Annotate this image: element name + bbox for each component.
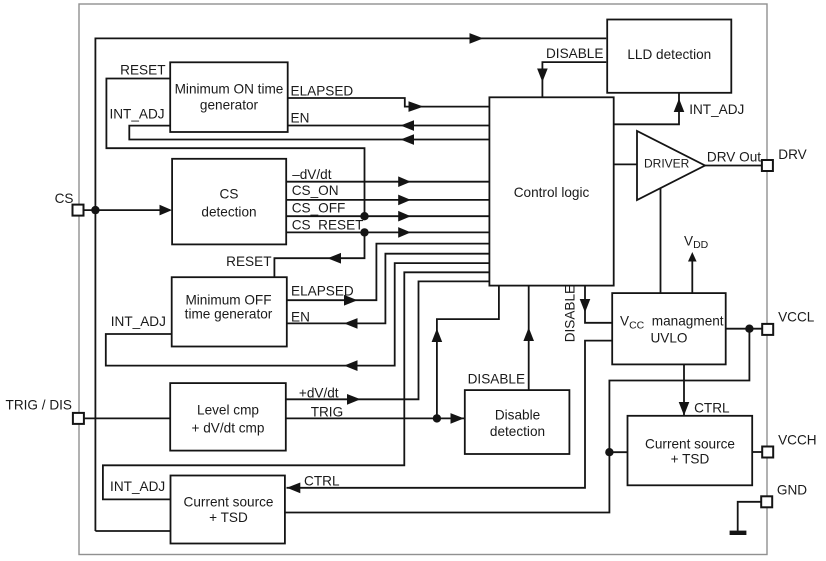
svg-text:CS: CS (220, 186, 239, 201)
pin CS (55, 191, 84, 216)
wire arrow: CS_RESET (398, 227, 411, 238)
wire arrow: CS_OFF (398, 211, 411, 222)
svg-text:detection: detection (490, 424, 545, 439)
svg-text:ELAPSED: ELAPSED (291, 83, 354, 98)
block: Current source + TSD (right) (628, 416, 753, 486)
wire INT_ADJ (bottom current source) from control logic (103, 272, 490, 499)
block: Control logic (489, 97, 613, 285)
wire arrow: CS_ON (398, 195, 411, 206)
svg-text:DRV Out: DRV Out (707, 150, 761, 165)
wire INT_ADJ (min OFF) from control logic (106, 263, 490, 366)
wire arrow: +dV/dt, pointing right (347, 394, 361, 405)
svg-text:Minimum ON time: Minimum ON time (175, 81, 284, 96)
svg-text:Minimum OFF: Minimum OFF (185, 292, 271, 307)
wire CS_RESET to control logic (286, 231, 489, 233)
wire right current source to VCCH pin (752, 451, 762, 453)
svg-text:GND: GND (777, 482, 807, 497)
wire ELAPSED (min ON) to control logic (288, 98, 490, 107)
wire EN (min ON) from control logic (288, 125, 490, 127)
wire RESET (min OFF) from CS_RESET junction (274, 232, 364, 277)
node: CS junction (91, 206, 99, 214)
wire arrow: INT_ADJ min ON, pointing left (401, 134, 415, 145)
wire INT_ADJ (min ON) from control logic (129, 126, 489, 140)
wire arrow: TRIG into disable detection (451, 413, 465, 424)
pin GND (761, 482, 807, 507)
svg-text:Current source: Current source (645, 437, 735, 452)
svg-text:EN: EN (291, 310, 310, 325)
svg-text:TRIG: TRIG (311, 404, 343, 419)
svg-text:UVLO: UVLO (650, 331, 687, 346)
node: TRIG junction (433, 414, 441, 422)
block: LLD detection (607, 20, 731, 93)
wire arrow: -dV/dt (398, 176, 411, 187)
wire ELAPSED (min OFF) to control logic (287, 244, 489, 301)
wire CS_ON to control logic (286, 199, 489, 201)
svg-text:DISABLE: DISABLE (468, 372, 525, 387)
svg-text:+ TSD: + TSD (671, 452, 710, 467)
svg-text:+ dV/dt cmp: + dV/dt cmp (192, 420, 265, 435)
wire -dV/dt to control logic (286, 181, 489, 183)
svg-text:CS_ON: CS_ON (292, 183, 339, 198)
wire Vcc managment to VCCL pin (726, 328, 763, 330)
block: Minimum ON time generator (170, 62, 288, 132)
svg-text:Disable: Disable (495, 408, 540, 423)
wire TRIG branch up into control logic bottom (437, 286, 499, 418)
svg-text:–dV/dt: –dV/dt (292, 167, 332, 182)
block: CS detection (172, 159, 286, 245)
wire INT_ADJ from control logic to LLD detection (614, 93, 679, 125)
wire CTRL from Vcc managment to right current source (683, 364, 685, 415)
wire arrow: CTRL down, pointing down (679, 402, 690, 416)
wire TRIG to disable detection (286, 417, 465, 419)
op-amp DRIVER triangle (637, 131, 705, 200)
wire arrow: DISABLE LLD, pointing down (537, 69, 548, 83)
svg-text:DISABLE: DISABLE (562, 285, 577, 342)
wire arrow: top line into LLD detection (470, 33, 484, 44)
svg-text:DISABLE: DISABLE (546, 46, 603, 61)
wire arrow: ELAPSED min ON, pointing right (409, 101, 424, 112)
wire CS net: pin to CS detection, up to LLD line, down to current source (84, 38, 606, 531)
node: CS_RESET junction (360, 228, 368, 236)
wire arrow: ELAPSED min OFF, pointing right (344, 295, 358, 306)
wire TRIG/DIS pin to level comparator (84, 417, 170, 419)
svg-text:RESET: RESET (120, 63, 165, 78)
wire CS_OFF to control logic (286, 215, 489, 217)
block: Minimum OFF time generator (172, 277, 287, 346)
svg-text:INT_ADJ: INT_ADJ (689, 102, 744, 117)
svg-text:Control logic: Control logic (514, 185, 590, 200)
wire control logic to driver (614, 163, 637, 165)
svg-text:CS_RESET: CS_RESET (292, 218, 364, 233)
block: Current source + TSD (left) (171, 476, 285, 544)
wire EN (min OFF) from control logic (287, 254, 489, 324)
wire arrow: CS into CS detection (160, 205, 173, 216)
svg-text:ELAPSED: ELAPSED (291, 284, 354, 299)
pin VCCL (762, 310, 815, 335)
svg-text:INT_ADJ: INT_ADJ (111, 314, 166, 329)
wire arrow: RESET min OFF, pointing left (328, 253, 342, 264)
wire driver bottom supply to Vcc managment (660, 188, 662, 294)
wire DISABLE from disable detection up to control logic (528, 286, 530, 391)
svg-text:RESET: RESET (226, 254, 271, 269)
block: Level cmp + dV/dt cmp (170, 383, 286, 451)
block: Disable detection (465, 390, 570, 454)
svg-text:LLD detection: LLD detection (627, 47, 711, 62)
svg-text:VCCL: VCCL (778, 310, 815, 325)
svg-text:DRV: DRV (778, 147, 806, 162)
wire arrow: DISABLE down, pointing down (580, 299, 591, 313)
node: VCCL junction (745, 325, 753, 333)
svg-text:VCCH: VCCH (778, 433, 817, 448)
svg-text:+dV/dt: +dV/dt (299, 385, 339, 400)
svg-text:+ TSD: + TSD (209, 510, 248, 525)
node: VCCL branch junction (605, 448, 613, 456)
ground (730, 531, 747, 535)
wire arrow: EN min ON, pointing left (401, 120, 415, 131)
wire arrow: INT_ADJ LLD, pointing up (674, 99, 685, 113)
svg-text:time generator: time generator (185, 307, 273, 322)
svg-text:Current source: Current source (184, 495, 274, 510)
svg-text:EN: EN (291, 111, 310, 126)
pin TRIG / DIS (6, 398, 84, 424)
wire arrow: TRIG branch, pointing up (432, 329, 443, 343)
power VDD supply arrow (684, 234, 709, 294)
svg-text:TRIG / DIS: TRIG / DIS (6, 398, 72, 413)
svg-text:INT_ADJ: INT_ADJ (109, 106, 164, 121)
svg-text:detection: detection (201, 205, 256, 220)
node: CS_OFF junction (360, 212, 368, 220)
svg-text:DRIVER: DRIVER (644, 156, 690, 170)
svg-text:Level cmp: Level cmp (197, 402, 259, 417)
wire DISABLE from LLD detection into control logic top (542, 62, 606, 97)
wire arrow: EN min OFF, pointing left (344, 318, 358, 329)
wire VCCL branch down to current sources (285, 329, 749, 513)
wire VCCL branch into right current source (609, 451, 627, 453)
block: Vcc managment UVLO (612, 293, 726, 364)
wire GND pin to ground symbol (738, 502, 762, 531)
wire driver output to DRV pin (705, 165, 762, 167)
wire arrow: DISABLE up, pointing up (523, 328, 534, 342)
pin DRV (762, 147, 807, 171)
svg-text:CS_OFF: CS_OFF (292, 201, 346, 216)
pin VCCH (762, 433, 816, 458)
wire CTRL from Vcc managment to left current source (287, 341, 613, 488)
wire RESET (min ON) from CS_OFF junction (106, 79, 364, 217)
svg-text:CTRL: CTRL (694, 401, 730, 416)
wire arrow: INT_ADJ min OFF, pointing left (344, 360, 358, 371)
svg-text:generator: generator (200, 97, 259, 112)
svg-text:INT_ADJ: INT_ADJ (110, 479, 165, 494)
svg-text:CTRL: CTRL (304, 474, 340, 489)
wire +dV/dt to control logic (286, 281, 489, 399)
wire DISABLE from control logic to Vcc managment (585, 286, 612, 323)
wire arrow: CTRL into left current source, pointing left (287, 483, 301, 494)
svg-text:CS: CS (55, 191, 74, 206)
